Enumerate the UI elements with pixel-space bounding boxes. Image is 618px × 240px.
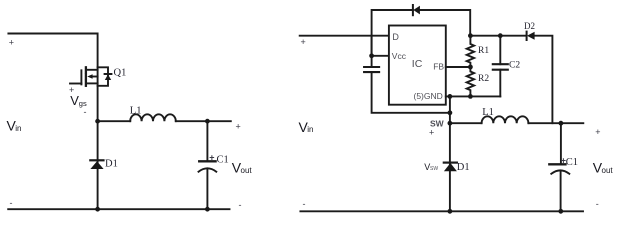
svg-text:R2: R2 bbox=[478, 74, 489, 84]
svg-text:+: + bbox=[9, 38, 14, 48]
svg-text:SW: SW bbox=[430, 166, 438, 172]
svg-text:-: - bbox=[239, 200, 242, 210]
svg-text:-: - bbox=[10, 198, 13, 208]
svg-text:D1: D1 bbox=[105, 159, 118, 170]
svg-text:out: out bbox=[241, 166, 253, 175]
svg-text:+: + bbox=[236, 122, 241, 132]
svg-text:Q1: Q1 bbox=[114, 68, 127, 79]
svg-text:-: - bbox=[84, 107, 87, 117]
svg-text:C1: C1 bbox=[566, 157, 578, 168]
svg-text:D2: D2 bbox=[524, 21, 535, 31]
svg-text:D: D bbox=[392, 32, 399, 42]
svg-text:-: - bbox=[303, 199, 306, 209]
svg-text:R1: R1 bbox=[478, 46, 489, 56]
svg-text:C2: C2 bbox=[509, 61, 520, 71]
svg-text:Vcc: Vcc bbox=[392, 51, 407, 61]
svg-text:+: + bbox=[429, 128, 434, 138]
svg-text:L1: L1 bbox=[482, 107, 494, 118]
svg-text:FB: FB bbox=[433, 61, 444, 71]
svg-text:-: - bbox=[596, 199, 599, 209]
svg-text:L1: L1 bbox=[130, 106, 142, 117]
svg-text:C1: C1 bbox=[217, 155, 229, 166]
svg-text:out: out bbox=[602, 166, 614, 175]
svg-text:+: + bbox=[209, 153, 214, 163]
svg-text:(5)GND: (5)GND bbox=[414, 91, 443, 101]
svg-text:D1: D1 bbox=[457, 162, 470, 173]
svg-text:+: + bbox=[301, 37, 306, 47]
svg-text:in: in bbox=[307, 125, 313, 134]
svg-text:IC: IC bbox=[412, 58, 423, 70]
svg-text:+: + bbox=[595, 127, 600, 137]
svg-text:in: in bbox=[15, 124, 21, 133]
